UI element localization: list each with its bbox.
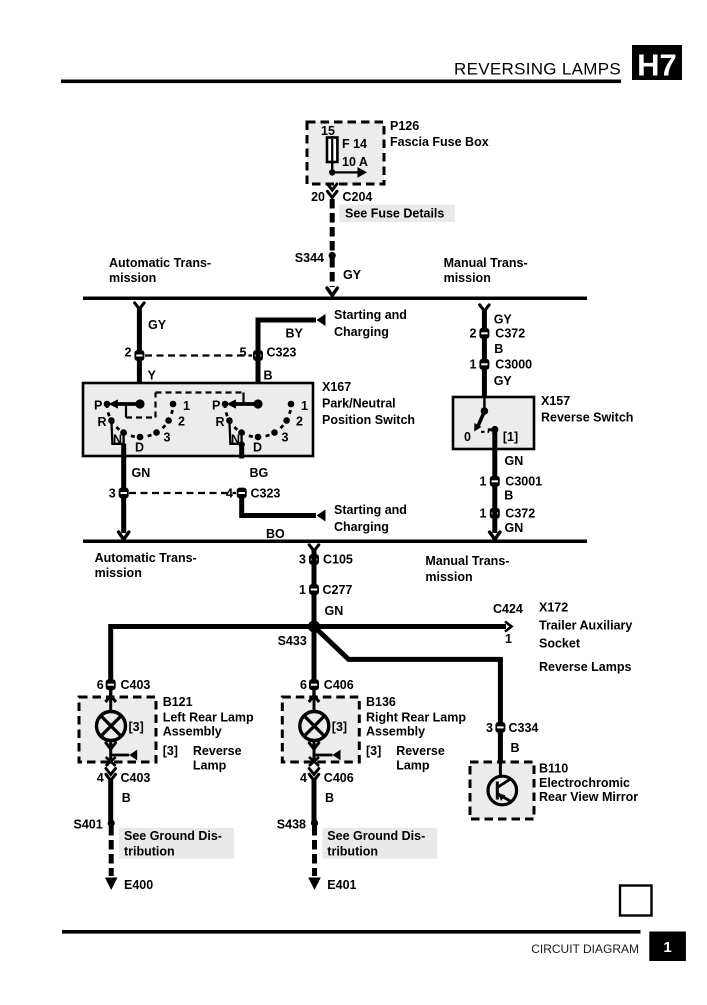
svg-text:Manual Trans-: Manual Trans- — [425, 554, 509, 568]
svg-text:2: 2 — [178, 415, 185, 429]
offpage arrow to Starting and Charging — [317, 314, 326, 326]
switch X157 dashed throw — [481, 431, 489, 433]
svg-text:Y: Y — [148, 369, 157, 383]
lamp B136 internal wire lower — [313, 741, 316, 761]
connector dashed link C323 upper — [145, 354, 252, 356]
svg-text:GY: GY — [343, 268, 362, 282]
svg-text:Rear View Mirror: Rear View Mirror — [539, 790, 638, 804]
svg-text:GY: GY — [148, 318, 167, 332]
svg-text:mission: mission — [425, 570, 472, 584]
svg-text:D: D — [135, 441, 144, 455]
wire fuse feed — [331, 136, 333, 172]
svg-text:Lamp: Lamp — [396, 759, 430, 773]
svg-text:Park/Neutral: Park/Neutral — [322, 397, 396, 411]
connector chevron C424 — [505, 622, 512, 632]
svg-text:D: D — [253, 441, 262, 455]
svg-text:S401: S401 — [73, 818, 102, 832]
svg-text:6: 6 — [300, 678, 307, 692]
svg-text:Reverse: Reverse — [396, 744, 445, 758]
svg-text:E400: E400 — [124, 878, 153, 892]
svg-text:B136: B136 — [366, 695, 396, 709]
svg-text:C105: C105 — [323, 553, 353, 567]
svg-text:6: 6 — [97, 678, 104, 692]
svg-text:GN: GN — [132, 466, 151, 480]
svg-text:C334: C334 — [509, 721, 539, 735]
svg-text:3: 3 — [164, 431, 171, 445]
bus wire lower — [83, 540, 587, 544]
connector C403 pin6 — [106, 679, 116, 690]
svg-text:3: 3 — [282, 431, 289, 445]
header rule — [61, 80, 621, 84]
svg-text:0: 0 — [464, 430, 471, 444]
svg-text:3: 3 — [486, 721, 493, 735]
fuse box P126 — [307, 122, 384, 184]
connector C277 — [309, 584, 319, 595]
lamp B121 internal wire upper — [109, 698, 112, 712]
svg-text:[3]: [3] — [129, 720, 144, 734]
wire S433 to trailer socket C424 — [314, 624, 506, 629]
connector ears at bus — [135, 303, 145, 309]
svg-text:mission: mission — [95, 566, 142, 580]
switch X157 contact 1 — [491, 426, 498, 433]
revision box — [620, 886, 652, 916]
svg-text:Assembly: Assembly — [163, 725, 222, 739]
svg-text:C372: C372 — [505, 507, 535, 521]
node S344 — [329, 252, 336, 259]
bus wire upper — [83, 297, 587, 301]
svg-text:R: R — [98, 415, 107, 429]
svg-text:C403: C403 — [121, 771, 151, 785]
connector C3001 — [490, 476, 500, 487]
svg-text:Right Rear Lamp: Right Rear Lamp — [366, 711, 466, 725]
svg-text:Starting and: Starting and — [334, 308, 407, 322]
connector C323 pin2 — [134, 350, 144, 361]
svg-text:B: B — [511, 741, 520, 755]
svg-text:4: 4 — [300, 771, 307, 785]
svg-text:tribution: tribution — [124, 845, 175, 859]
svg-text:Charging: Charging — [334, 520, 389, 534]
connector C403 pin4 — [106, 769, 116, 775]
wire C105 to C277 — [312, 549, 317, 624]
junction dot in fuse box — [329, 169, 335, 175]
lamp B121 internal wire lower — [109, 741, 112, 761]
svg-text:Fascia Fuse Box: Fascia Fuse Box — [390, 135, 489, 149]
svg-text:B: B — [504, 489, 513, 503]
offpage arrow to Starting and Charging lower — [317, 510, 326, 522]
footer rule — [62, 930, 641, 934]
svg-text:[3]: [3] — [163, 744, 178, 758]
svg-text:BY: BY — [286, 327, 304, 341]
bulb B121 — [97, 712, 126, 741]
connector ears below bus — [309, 545, 319, 551]
svg-text:Assembly: Assembly — [366, 725, 425, 739]
svg-text:E401: E401 — [327, 878, 356, 892]
svg-text:1: 1 — [470, 358, 477, 372]
svg-text:C406: C406 — [324, 678, 354, 692]
svg-text:mission: mission — [444, 271, 491, 285]
svg-text:B110: B110 — [539, 762, 568, 776]
junction dot right switch output — [239, 441, 245, 447]
svg-text:C204: C204 — [343, 190, 373, 204]
svg-text:GN: GN — [325, 604, 344, 618]
connector C406 pin4 — [309, 769, 319, 775]
switch B wire from N contact — [240, 433, 242, 444]
wire S344 to bus — [330, 258, 335, 287]
mirror device circle — [488, 776, 517, 805]
lamp B121 border crossing — [106, 757, 116, 766]
svg-text:P126: P126 — [390, 119, 419, 133]
svg-text:Trailer Auxiliary: Trailer Auxiliary — [539, 619, 632, 633]
svg-text:Lamp: Lamp — [193, 759, 227, 773]
connector C3000 — [479, 359, 489, 370]
page number tab — [649, 932, 686, 962]
switch B contacts — [225, 404, 291, 437]
switch ganging dashed link — [125, 404, 127, 418]
svg-text:P: P — [94, 399, 102, 413]
fuse F14 — [327, 138, 337, 163]
mirror internal wire — [499, 763, 502, 777]
svg-text:3: 3 — [109, 487, 116, 501]
svg-text:Manual Trans-: Manual Trans- — [444, 256, 528, 270]
svg-text:Left Rear Lamp: Left Rear Lamp — [163, 711, 254, 725]
svg-text:2: 2 — [470, 327, 477, 341]
svg-text:C403: C403 — [121, 678, 151, 692]
svg-text:S344: S344 — [295, 251, 324, 265]
connector V at bus — [327, 288, 337, 296]
svg-text:B: B — [494, 342, 503, 356]
svg-text:B: B — [325, 791, 334, 805]
svg-text:[1]: [1] — [503, 430, 518, 444]
svg-text:Starting and: Starting and — [334, 503, 407, 517]
svg-text:10 A: 10 A — [342, 155, 368, 169]
svg-text:GN: GN — [505, 454, 524, 468]
lamp B121 internal arrow — [111, 754, 130, 757]
svg-text:B121: B121 — [163, 695, 193, 709]
svg-text:1: 1 — [299, 583, 306, 597]
lamp box B136 — [282, 697, 359, 762]
connector C204 — [327, 191, 337, 197]
svg-text:Socket: Socket — [539, 637, 581, 651]
lamp B136 internal wire upper — [313, 698, 316, 712]
lamp B136 internal ears — [309, 743, 319, 749]
mirror box B110 — [470, 762, 534, 819]
wire S433 to left lamp — [111, 627, 314, 685]
svg-text:Automatic Trans-: Automatic Trans- — [109, 256, 211, 270]
switch A junction dot — [135, 399, 144, 408]
switch B output wire — [239, 444, 244, 459]
node S401 — [108, 820, 115, 827]
wire S433 to mirror — [314, 627, 500, 725]
svg-text:mission: mission — [109, 271, 156, 285]
switch B wiper arm to P — [236, 402, 258, 406]
svg-text:P: P — [212, 399, 220, 413]
note See Ground Distribution B136 — [322, 828, 437, 859]
connector C323 pin4 — [237, 488, 247, 499]
lamp B136 entry chevron — [309, 696, 319, 702]
svg-text:tribution: tribution — [327, 845, 378, 859]
switch X157 input — [483, 397, 486, 411]
wire GN to C3001 — [492, 449, 497, 478]
switch X167 box — [83, 383, 313, 456]
connector C406 pin6 — [309, 679, 319, 690]
wire connector to lamp box — [312, 687, 315, 699]
lamp B136 border crossing — [309, 757, 319, 766]
svg-text:See Ground Dis-: See Ground Dis- — [327, 829, 425, 843]
switch X157 box — [453, 397, 534, 449]
wire GY to pin2 C323 — [137, 307, 142, 404]
svg-text:GY: GY — [494, 374, 513, 388]
note See Fuse Details — [339, 205, 455, 223]
switch B wire from R contact — [229, 421, 241, 444]
svg-text:X157: X157 — [541, 394, 570, 408]
svg-text:F 14: F 14 — [342, 137, 367, 151]
ground E400 — [105, 878, 118, 891]
ground E401 — [308, 878, 321, 891]
svg-text:5: 5 — [240, 346, 247, 360]
connector C323 pin5 — [253, 350, 263, 361]
connector C105 — [309, 554, 319, 565]
svg-text:15: 15 — [321, 124, 335, 138]
pin 20 arrow at box exit — [327, 184, 337, 190]
svg-text:1: 1 — [663, 939, 671, 956]
switch A wire from N contact — [122, 433, 124, 444]
svg-text:20: 20 — [311, 190, 325, 204]
wire BY from Starting and Charging — [258, 320, 316, 404]
svg-text:GY: GY — [494, 313, 513, 327]
switch A contacts — [107, 404, 173, 437]
svg-text:[3]: [3] — [366, 744, 381, 758]
switch A wire from R contact — [111, 421, 123, 444]
wire C406 to ground splice — [312, 780, 317, 821]
svg-text:C277: C277 — [323, 583, 353, 597]
switch X157 output — [492, 431, 497, 449]
connector C372 lower — [490, 508, 500, 519]
svg-text:X167: X167 — [322, 380, 351, 394]
svg-text:[3]: [3] — [332, 720, 347, 734]
svg-text:4: 4 — [226, 487, 233, 501]
svg-text:Position Switch: Position Switch — [322, 413, 415, 427]
svg-text:3: 3 — [299, 553, 306, 567]
svg-text:REVERSING LAMPS: REVERSING LAMPS — [454, 60, 621, 79]
svg-text:C424: C424 — [493, 602, 523, 616]
switch A wiper arm to P — [118, 402, 140, 406]
connector ears at bus right — [480, 305, 490, 311]
svg-text:BO: BO — [266, 527, 285, 541]
wire ground dashed B121 — [109, 826, 114, 876]
svg-text:Automatic Trans-: Automatic Trans- — [95, 551, 197, 565]
svg-text:See Ground Dis-: See Ground Dis- — [124, 829, 222, 843]
svg-text:GN: GN — [505, 521, 524, 535]
svg-text:1: 1 — [505, 632, 512, 646]
svg-text:See Fuse Details: See Fuse Details — [345, 207, 444, 221]
connector dashed link C323 lower — [129, 492, 236, 494]
switch A output wire — [121, 444, 126, 459]
wire C403 to ground splice — [108, 780, 113, 821]
svg-text:X172: X172 — [539, 601, 568, 615]
svg-text:1: 1 — [183, 399, 190, 413]
svg-text:B: B — [122, 791, 131, 805]
svg-text:Reverse: Reverse — [193, 744, 242, 758]
lamp B121 entry chevron — [106, 696, 116, 702]
svg-text:C372: C372 — [495, 327, 525, 341]
lamp box B121 — [79, 697, 156, 762]
svg-text:2: 2 — [125, 346, 132, 360]
svg-text:S438: S438 — [277, 818, 306, 832]
svg-text:CIRCUIT DIAGRAM: CIRCUIT DIAGRAM — [531, 942, 639, 956]
wire C334 to mirror box — [498, 731, 503, 763]
page tab H7 — [632, 45, 682, 80]
wire GY to C372 — [482, 309, 487, 397]
svg-text:2: 2 — [296, 415, 303, 429]
svg-text:C406: C406 — [324, 771, 354, 785]
connector V at lower bus — [119, 532, 129, 540]
svg-text:B: B — [264, 369, 273, 383]
connector C334 — [495, 722, 505, 733]
connector C372 pin2 — [479, 328, 489, 339]
wire GN to lower bus — [492, 485, 497, 533]
svg-text:C3001: C3001 — [505, 475, 542, 489]
wire GN to C323 pin3 — [121, 456, 126, 490]
svg-text:C323: C323 — [251, 487, 281, 501]
svg-text:4: 4 — [97, 771, 104, 785]
note See Ground Distribution B121 — [119, 828, 234, 859]
svg-text:Reverse Lamps: Reverse Lamps — [539, 660, 631, 674]
svg-text:Electrochromic: Electrochromic — [539, 776, 630, 790]
wire C204 to S344 (dashed) — [330, 199, 335, 253]
internal arrow to other fuse circuits — [332, 171, 358, 173]
switch B junction dot — [253, 399, 262, 408]
svg-text:C323: C323 — [267, 346, 297, 360]
svg-text:Charging: Charging — [334, 325, 389, 339]
svg-text:1: 1 — [480, 475, 487, 489]
mirror transistor symbol — [496, 782, 499, 800]
switch X157 arm open to 0 — [478, 412, 484, 427]
wire ground dashed B136 — [312, 826, 317, 876]
connector V at lower bus right — [490, 532, 500, 540]
svg-text:R: R — [216, 415, 225, 429]
node S433 — [308, 621, 320, 633]
svg-text:C3000: C3000 — [495, 358, 532, 372]
lamp B121 internal ears — [106, 743, 116, 749]
svg-text:H7: H7 — [637, 48, 677, 83]
wire BO to Starting and Charging — [242, 496, 316, 516]
wire S433 down to right lamp — [312, 627, 317, 685]
bulb B136 — [300, 712, 329, 741]
svg-text:Reverse Switch: Reverse Switch — [541, 411, 633, 425]
svg-text:1: 1 — [480, 507, 487, 521]
svg-text:S433: S433 — [278, 634, 307, 648]
svg-text:BG: BG — [250, 466, 269, 480]
wire GN to bus lower — [121, 496, 126, 533]
svg-text:1: 1 — [301, 399, 308, 413]
connector C323 pin3 — [119, 488, 129, 499]
node S438 — [311, 820, 318, 827]
lamp B136 internal arrow — [314, 754, 333, 757]
wire connector to lamp box — [109, 687, 112, 699]
